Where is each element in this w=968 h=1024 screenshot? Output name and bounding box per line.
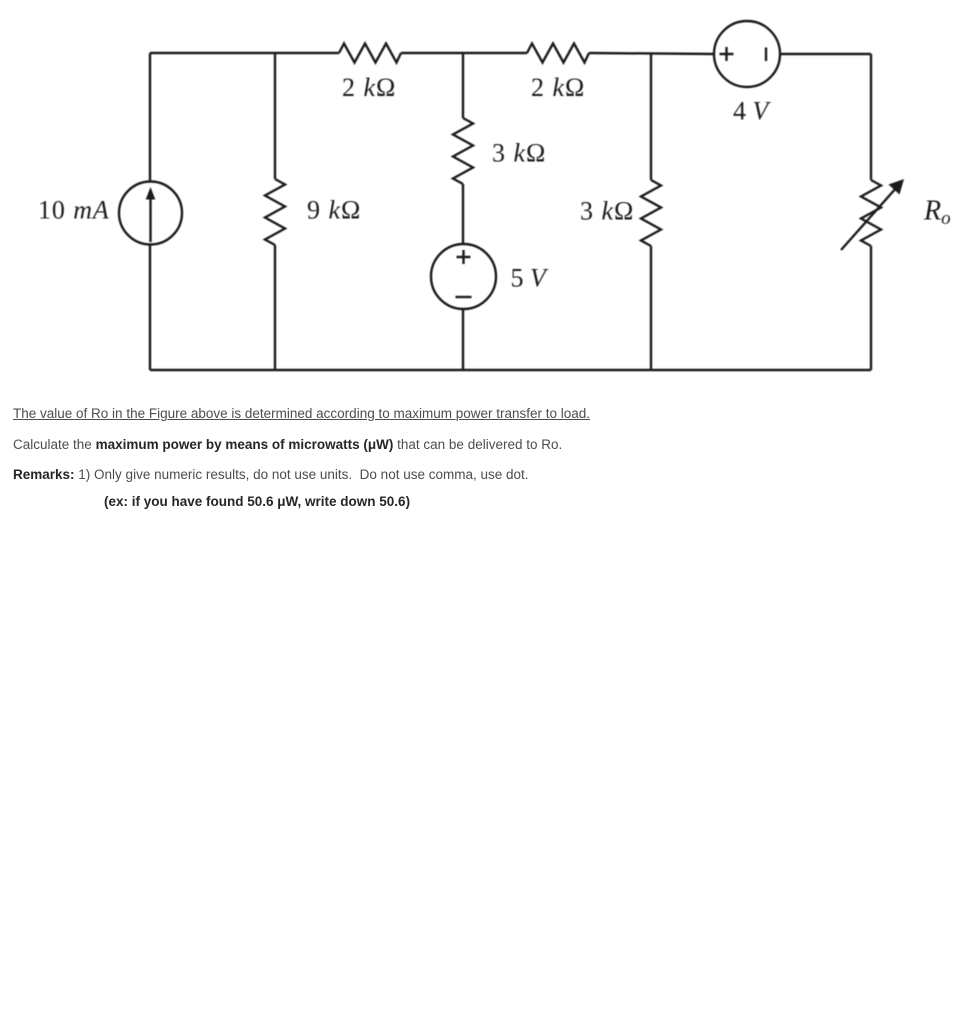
wire 9k branch upper	[274, 53, 276, 179]
wire bottom rail	[150, 369, 871, 371]
voltage source V1 minus sign	[456, 296, 472, 298]
resistor R1 2k (top left, horizontal)	[339, 44, 401, 63]
wire top rail to 4V source	[589, 53, 714, 54]
resistor R4 3k (middle vertical)	[453, 118, 473, 184]
resistor R5 3k (right vertical)	[641, 180, 661, 246]
wire 5V to bottom	[462, 309, 464, 370]
current source I1 arrow shaft	[149, 196, 151, 242]
resistor R3 9k (vertical)	[265, 179, 285, 245]
voltage source V2 minus tick	[765, 48, 767, 62]
question text line 1	[13, 406, 590, 421]
wire left vertical lower	[149, 245, 151, 371]
voltage source V1 5V circle	[431, 244, 496, 309]
wire top rail middle segment	[401, 52, 527, 54]
question text line 3	[13, 467, 529, 482]
circuit schematic	[0, 0, 968, 400]
svg-text:10 mA: 10 mA	[38, 196, 110, 225]
voltage source V2 plus sign	[720, 47, 734, 61]
wire 3k right branch lower	[650, 246, 652, 370]
resistor Ro variable (right vertical)	[861, 180, 881, 246]
current source I1 arrowhead	[146, 187, 156, 200]
question text line 4	[104, 494, 410, 509]
variable resistor Ro arrowhead	[889, 179, 905, 195]
wire 9k branch lower	[274, 245, 276, 370]
voltage source V2 4V circle	[714, 21, 780, 87]
resistor R2 2k (top right, horizontal)	[527, 44, 589, 63]
svg-text:9 kΩ: 9 kΩ	[307, 196, 361, 225]
svg-text:3 kΩ: 3 kΩ	[492, 139, 546, 168]
svg-text:3 kΩ: 3 kΩ	[580, 197, 634, 226]
svg-text:4 V: 4 V	[733, 97, 772, 126]
svg-text:2 kΩ: 2 kΩ	[531, 73, 585, 102]
wire right edge lower	[870, 246, 872, 370]
wire left vertical upper	[149, 53, 151, 182]
wire middle branch to 5V	[462, 184, 464, 244]
wire 3k right branch upper	[650, 53, 652, 180]
svg-text:Ro: Ro	[923, 196, 951, 230]
voltage source V1 plus sign	[457, 250, 471, 264]
wire top rail left segment	[150, 52, 339, 54]
question text line 2	[13, 437, 562, 452]
wire middle branch upper	[462, 53, 464, 118]
svg-text:5 V: 5 V	[511, 264, 550, 293]
wire right edge upper	[870, 54, 872, 180]
current source I1 10mA circle	[119, 182, 182, 245]
svg-text:2 kΩ: 2 kΩ	[342, 73, 396, 102]
wire 4V to top right corner	[780, 53, 871, 55]
variable resistor Ro arrow shaft	[841, 187, 897, 250]
